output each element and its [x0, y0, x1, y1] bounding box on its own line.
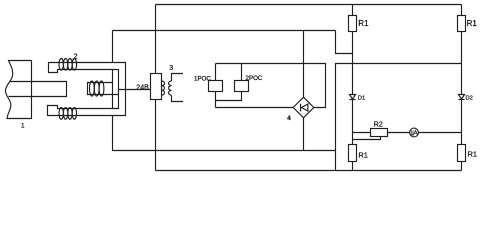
transformer T secondary winding — [168, 81, 171, 95]
svg-text:2POC: 2POC — [246, 75, 263, 82]
right mid rail — [336, 64, 462, 171]
resistor R2 — [371, 129, 388, 137]
transformer secondary top lead — [172, 74, 184, 82]
meter uA — [410, 128, 419, 137]
svg-text:2: 2 — [74, 53, 78, 60]
wire to R2 — [353, 132, 371, 134]
left column bottom lead — [352, 162, 354, 171]
svg-text:D2: D2 — [466, 95, 473, 101]
svg-text:R1: R1 — [467, 19, 478, 28]
svg-text:3: 3 — [169, 65, 173, 72]
wire housing bottom to bottom rail — [113, 116, 336, 151]
wire W1 horizontal — [113, 30, 336, 32]
diode D1 — [349, 95, 355, 100]
transformer T primary feed top wire — [155, 5, 157, 74]
diode D2 — [458, 95, 464, 100]
coil top (winding 2) — [59, 59, 77, 71]
shaft 1 — [5, 61, 31, 119]
coil middle (winding on limb) — [90, 81, 104, 96]
middle limb end wall — [112, 70, 114, 109]
left column wire D1 to R1 bottom — [352, 100, 354, 145]
svg-text:R1: R1 — [468, 150, 478, 159]
core housing (C-core) — [48, 63, 126, 116]
wire 24B output — [119, 89, 151, 91]
resistor R1 top-right — [458, 16, 466, 32]
svg-text:1: 1 — [21, 122, 25, 129]
wire 1POC top — [215, 64, 217, 81]
wire housing top to node — [112, 31, 114, 63]
svg-text:R2: R2 — [374, 121, 383, 128]
transformer T primary coupling bumps — [162, 81, 165, 95]
top rail — [156, 4, 462, 6]
svg-text:4: 4 — [287, 115, 291, 122]
transformer secondary bottom lead — [172, 95, 184, 101]
R2 tap wire — [353, 137, 381, 140]
middle limb — [88, 83, 119, 95]
resistor R1 top-left — [349, 16, 357, 32]
wire 1POC bottom down — [215, 92, 217, 108]
resistor R1 bottom-right — [458, 145, 466, 162]
svg-text:24B: 24B — [136, 85, 149, 92]
wire U between POC bottoms — [216, 92, 242, 101]
svg-text:1POC: 1POC — [194, 75, 211, 82]
detector diamond 4 — [293, 97, 314, 118]
bottom rail — [156, 170, 462, 172]
svg-text:D1: D1 — [358, 95, 365, 101]
right column wire R1 to D2 — [461, 32, 463, 95]
wire 2POC top — [241, 64, 243, 81]
svg-text:R1: R1 — [358, 19, 369, 28]
wire diamond bottom — [303, 118, 305, 151]
armature bar of shaft — [9, 82, 67, 97]
transformer T primary feed bottom wire — [155, 100, 157, 171]
wire to diamond left vertex — [216, 107, 294, 109]
mid rail (to diamond) — [216, 64, 326, 108]
coil bottom (winding) — [59, 108, 77, 120]
right column top lead — [461, 5, 463, 16]
svg-text:R1: R1 — [358, 150, 368, 159]
transformer T primary winding box — [151, 74, 162, 100]
wire from W1 down at x335 to R1 — [336, 31, 353, 54]
block 1POC box — [209, 81, 223, 92]
left column top lead — [352, 5, 354, 16]
block 2POC box — [235, 81, 249, 92]
right column wire D2 to R1 bottom — [461, 100, 463, 145]
resistor R1 bottom-left — [349, 145, 357, 162]
diode inside diamond — [301, 104, 308, 112]
wire diamond top — [303, 31, 305, 98]
wire R2 to meter — [388, 132, 410, 134]
right column bottom lead — [461, 162, 463, 171]
label 2 — [72, 53, 78, 61]
left column wire R1 to D1 — [352, 32, 354, 95]
wire meter to right column — [418, 132, 461, 134]
